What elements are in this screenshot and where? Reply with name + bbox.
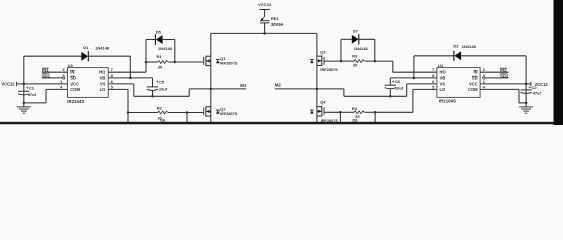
resistor R4 30 xyxy=(352,106,364,122)
diode D7 1N4148 xyxy=(352,29,369,51)
wire U4 pin3 to SD2 xyxy=(485,77,508,79)
node R1 right xyxy=(174,61,177,64)
svg-text:C5: C5 xyxy=(159,79,165,84)
wire R3 to HO U4 xyxy=(392,61,394,72)
wire Q4 drain xyxy=(316,89,318,107)
wire D2 cathode drop xyxy=(413,56,415,78)
svg-text:HO: HO xyxy=(440,70,447,75)
svg-text:1N4148: 1N4148 xyxy=(462,44,477,49)
svg-text:VS: VS xyxy=(440,81,446,86)
power port VCC12 right xyxy=(531,82,549,87)
node R1 left xyxy=(145,61,148,64)
wire U4 pin1 to VCC12 right xyxy=(480,83,531,85)
relay RE1 30V9A contact xyxy=(260,16,284,27)
wire M1 row xyxy=(189,88,246,90)
wire R2 row xyxy=(128,112,158,114)
svg-text:47uf: 47uf xyxy=(533,91,542,96)
op-amp U4 IR2104S driver box xyxy=(437,63,480,104)
wire LO down to R2 xyxy=(108,88,128,90)
wire D2 anode to VCC12 right xyxy=(461,55,526,57)
node M2 junction xyxy=(316,88,319,91)
svg-text:R3: R3 xyxy=(352,54,358,59)
svg-text:VCC: VCC xyxy=(70,81,79,86)
node VCC12-C2 junction xyxy=(525,83,528,86)
wire COM to ground xyxy=(46,88,68,90)
svg-text:U4: U4 xyxy=(438,63,444,68)
node R4 left xyxy=(339,111,342,114)
node R3 left xyxy=(340,60,343,63)
node C1-ground junction xyxy=(23,102,26,105)
node IN1 label xyxy=(42,68,49,73)
svg-text:IR2104S: IR2104S xyxy=(67,99,84,104)
svg-text:SD1: SD1 xyxy=(42,73,51,78)
ground bus bottom edge xyxy=(0,122,563,124)
capacitor C2 47uf xyxy=(520,84,541,103)
node top bus junction xyxy=(263,32,266,35)
svg-text:R1: R1 xyxy=(157,54,163,59)
resistor R1 30 xyxy=(157,54,168,69)
svg-text:RE1: RE1 xyxy=(271,16,280,21)
wire Q2 source to bus xyxy=(210,116,212,122)
resistor R3 30 xyxy=(352,54,364,68)
power port VCC12 left xyxy=(1,82,16,87)
svg-text:30: 30 xyxy=(158,64,163,69)
svg-text:C6: C6 xyxy=(395,79,401,84)
svg-text:1N4148: 1N4148 xyxy=(158,46,173,51)
U3 pin labels xyxy=(70,70,106,92)
table strip below bus xyxy=(0,123,563,126)
resistor R2 30 xyxy=(157,105,168,122)
svg-text:Q1: Q1 xyxy=(220,56,226,61)
svg-text:SD2: SD2 xyxy=(500,73,509,78)
wire relay to top bus xyxy=(264,23,266,34)
svg-text:IRF2807S: IRF2807S xyxy=(220,112,238,116)
svg-text:D6: D6 xyxy=(160,117,166,122)
svg-text:C2: C2 xyxy=(532,85,538,90)
node R2 left xyxy=(127,111,130,114)
wire R3 row xyxy=(341,60,354,62)
wire SD1 to U3 pin3 xyxy=(42,77,63,79)
node VB-D1 junction xyxy=(129,77,132,80)
svg-text:D2: D2 xyxy=(453,43,459,48)
wire R4 row xyxy=(340,111,354,113)
U3 pin numbers xyxy=(60,67,114,89)
pin 3 bubble U3 xyxy=(63,77,65,79)
svg-text:VS: VS xyxy=(100,81,106,86)
svg-text:VCC24: VCC24 xyxy=(258,2,272,7)
svg-text:30V9A: 30V9A xyxy=(271,22,284,27)
wire D6 legs to bus xyxy=(127,113,129,123)
svg-text:R2: R2 xyxy=(157,105,163,110)
wire U4 COM to ground xyxy=(480,88,519,90)
svg-text:LO: LO xyxy=(100,87,107,92)
node C5-VS junction xyxy=(151,95,154,98)
transistor Q3 IRF2807S xyxy=(310,49,338,72)
wire U4 pin2 to IN2 xyxy=(480,71,508,73)
wire Q3 drain xyxy=(316,33,318,56)
transistor Q1 IRF2807S xyxy=(204,56,238,66)
U4 pin numbers xyxy=(432,67,486,89)
transistor Q2 IRF2807S xyxy=(204,106,238,116)
svg-text:10uf: 10uf xyxy=(159,86,168,91)
node SD1 label xyxy=(42,73,51,78)
svg-text:IN1: IN1 xyxy=(42,68,49,73)
diode D5 1N4148 xyxy=(155,30,172,52)
svg-text:HO: HO xyxy=(99,70,106,75)
node M1 junction xyxy=(210,88,213,91)
svg-text:COM: COM xyxy=(468,87,478,92)
wire D5 legs xyxy=(146,39,155,41)
svg-text:R4: R4 xyxy=(352,106,358,111)
svg-text:1N4148: 1N4148 xyxy=(95,45,110,50)
wire Q3 gate xyxy=(324,60,341,62)
wire VCC24 down xyxy=(264,10,266,17)
capacitor C5 10uf bootstrap xyxy=(147,78,168,96)
svg-text:VB: VB xyxy=(440,75,446,80)
svg-text:Q2: Q2 xyxy=(220,106,226,111)
capacitor C6 10uf bootstrap xyxy=(385,78,404,96)
wire VCC12 rail vertical left xyxy=(23,56,25,103)
svg-text:IR2104S: IR2104S xyxy=(439,99,456,104)
wire D7 legs xyxy=(341,38,352,40)
svg-text:47uf: 47uf xyxy=(28,92,37,97)
node C2-ground junction xyxy=(525,102,528,105)
wire D1 top loop horizontal xyxy=(24,55,82,57)
svg-text:M2: M2 xyxy=(275,83,282,88)
wire Q1 drain xyxy=(210,33,212,56)
wire M2 row xyxy=(275,88,344,90)
svg-text:D7: D7 xyxy=(353,29,359,34)
diode D2 1N4148 xyxy=(453,43,476,61)
svg-text:10uf: 10uf xyxy=(395,85,404,90)
wire Q4 gate xyxy=(324,111,341,113)
wire top bus xyxy=(211,32,317,34)
svg-text:VCC12: VCC12 xyxy=(1,82,15,87)
node IN2 label xyxy=(500,68,507,73)
wire Q2 drain xyxy=(210,89,212,107)
svg-text:COM: COM xyxy=(70,87,80,92)
diode D1 1N4148 xyxy=(81,45,110,62)
transistor Q4 IRF2807S xyxy=(310,100,338,123)
wire Q4 source to bus xyxy=(316,116,318,123)
wire R1 row xyxy=(146,61,158,63)
svg-text:IRF2807S: IRF2807S xyxy=(220,61,238,65)
node VB-D2 junction xyxy=(413,77,416,80)
op-amp U3 IR2104S driver box xyxy=(67,63,108,104)
black right border bar xyxy=(554,0,563,125)
svg-text:D5: D5 xyxy=(156,30,162,35)
capacitor C1 47uf xyxy=(18,85,36,97)
svg-text:U3: U3 xyxy=(68,63,74,68)
svg-text:30: 30 xyxy=(353,62,358,67)
U4 pin labels xyxy=(440,70,479,92)
wire M2 to VS staircase xyxy=(343,89,345,96)
svg-text:IRF2807S: IRF2807S xyxy=(320,68,338,72)
wire LO U4 riser xyxy=(412,89,414,112)
svg-text:Q4: Q4 xyxy=(320,100,326,105)
ground symbol left xyxy=(17,103,31,113)
wire IN1 to U3 pin2 xyxy=(42,71,68,73)
svg-text:D8: D8 xyxy=(352,117,358,122)
svg-text:M1: M1 xyxy=(240,83,247,88)
power port VCC24 xyxy=(258,2,272,10)
ground symbol right xyxy=(519,103,533,113)
node C6-VS junction xyxy=(389,95,392,98)
node VCC12-C1 junction xyxy=(23,83,26,86)
svg-text:C1: C1 xyxy=(29,85,35,90)
wire D8 legs to bus xyxy=(339,112,341,122)
wire Q1 source to M1 node xyxy=(210,66,212,89)
wire Q3 source xyxy=(316,66,318,89)
svg-text:IN2: IN2 xyxy=(500,68,507,73)
wire D1 cathode to VB drop xyxy=(88,55,130,57)
wire VCC12 to U3 pin1 xyxy=(17,83,68,85)
pin 3 bubble U4 xyxy=(483,77,485,79)
svg-text:1N4148: 1N4148 xyxy=(354,46,369,51)
wire VB row U4 xyxy=(390,77,437,79)
wire VB row xyxy=(108,77,152,79)
svg-text:Q3: Q3 xyxy=(320,49,326,54)
wire HO to R1 network xyxy=(108,71,146,73)
svg-text:LO: LO xyxy=(440,87,447,92)
node SD2 label xyxy=(500,73,509,78)
node R4 right xyxy=(374,111,377,114)
svg-text:D1: D1 xyxy=(83,45,89,50)
node R2 right xyxy=(186,111,189,114)
wire VS to switch node xyxy=(108,83,134,85)
svg-text:VCC: VCC xyxy=(469,81,478,86)
svg-text:VB: VB xyxy=(100,75,106,80)
node R3 right xyxy=(374,60,377,63)
